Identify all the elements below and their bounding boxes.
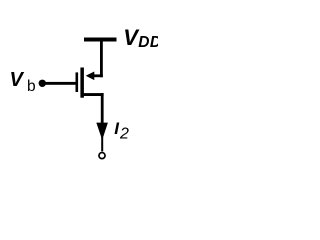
svg-text:2: 2 <box>119 126 129 143</box>
svg-text:DD: DD <box>138 34 158 51</box>
svg-text:b: b <box>27 78 36 95</box>
svg-text:V: V <box>10 69 25 91</box>
